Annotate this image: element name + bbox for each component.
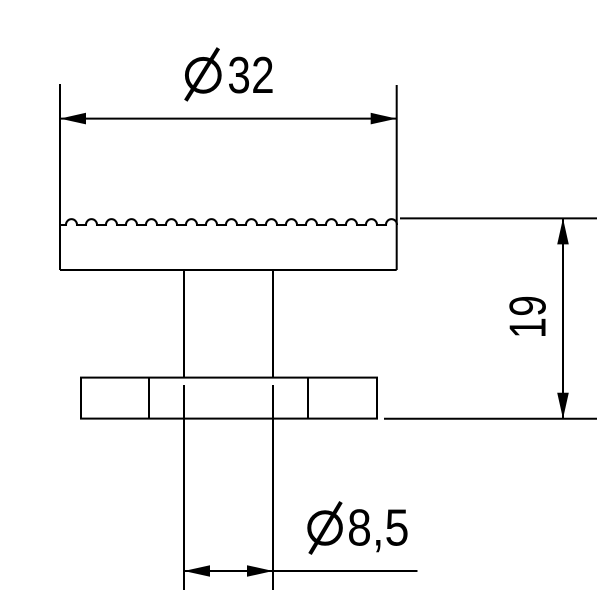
arrowhead left of dimension D8.5 bbox=[184, 565, 210, 577]
extension line left of dimension D32 (merges with knurled cap left edge) bbox=[59, 84, 61, 270]
arrowhead top of dimension 19 bbox=[557, 218, 569, 244]
dimension line 19 bbox=[562, 218, 564, 418]
svg-text:8,5: 8,5 bbox=[347, 500, 410, 558]
dimension line D32 bbox=[60, 118, 397, 120]
stem left edge bbox=[183, 270, 185, 378]
extension line right of dimension D8.5 bbox=[272, 385, 274, 590]
dimension line D8.5 bbox=[184, 570, 418, 572]
flange outline bbox=[81, 378, 377, 419]
knurled cap bottom edge bbox=[60, 269, 397, 271]
extension line right of dimension D32 (merges with knurled cap right edge) bbox=[396, 85, 398, 270]
flange inner edge left bbox=[148, 378, 150, 419]
extension line bottom of dimension 19 bbox=[384, 418, 597, 420]
stem right edge bbox=[272, 270, 274, 378]
extension line top of dimension 19 bbox=[400, 217, 597, 219]
svg-text:19: 19 bbox=[500, 295, 558, 339]
arrowhead left of dimension D32 bbox=[60, 113, 86, 125]
knurled cap top edge (scalloped knurl profile) bbox=[60, 219, 397, 225]
arrowhead bottom of dimension 19 bbox=[557, 393, 569, 419]
arrowhead right of dimension D32 bbox=[371, 113, 397, 125]
diameter symbol of label D32 bbox=[186, 48, 220, 100]
diameter symbol of label D8.5 bbox=[309, 502, 341, 554]
arrowhead right of dimension D8.5 bbox=[247, 565, 273, 577]
flange inner edge right bbox=[307, 378, 309, 419]
svg-text:32: 32 bbox=[227, 47, 274, 105]
extension line left of dimension D8.5 bbox=[183, 385, 185, 590]
